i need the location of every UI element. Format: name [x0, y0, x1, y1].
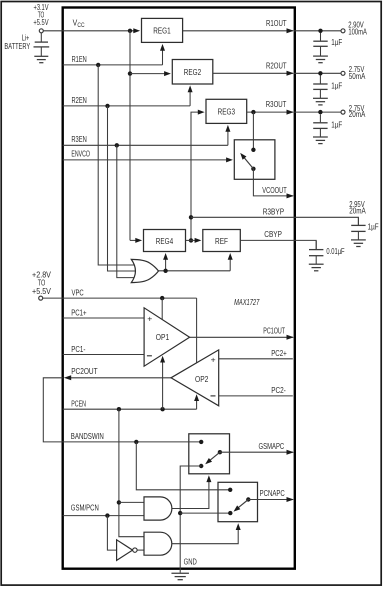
svg-text:BANDSWIN: BANDSWIN	[71, 432, 104, 441]
arrow R2EN into REG2 bottom	[188, 85, 193, 92]
ground GND pin	[171, 573, 189, 579]
svg-text:MAX1727: MAX1727	[234, 298, 260, 307]
pin label R2EN	[72, 96, 87, 105]
arrow R1EN into REG1 bottom	[160, 44, 165, 51]
OR gate G1	[131, 259, 158, 282]
value label 1uF C2	[331, 82, 342, 91]
svg-text:OP1: OP1	[156, 333, 170, 342]
svg-text:PC2OUT: PC2OUT	[71, 367, 97, 376]
svg-text:REG3: REG3	[218, 108, 236, 117]
pin label PC2OUT	[71, 367, 97, 376]
node R2OUT terminal	[341, 71, 345, 75]
wire R1EN	[63, 47, 163, 65]
arrow R3OUT at border	[287, 110, 294, 115]
IC U1 MAX1727 body outline	[63, 8, 295, 569]
pin label R3EN	[71, 135, 86, 144]
svg-text:PC1-: PC1-	[71, 345, 85, 354]
pin label R3BYP	[263, 208, 285, 217]
arrow into REG4	[135, 238, 142, 243]
svg-text:GSM/PCN: GSM/PCN	[71, 504, 99, 513]
svg-text:+5.5V: +5.5V	[33, 18, 49, 27]
wire R2OUT external	[294, 72, 341, 74]
wire GSMAPC output	[220, 451, 293, 453]
svg-text:VCOOUT: VCOOUT	[262, 186, 286, 195]
regulator REG3	[206, 99, 247, 123]
wire OR output to REG4 and REF	[158, 256, 230, 271]
op-amp OP2	[171, 350, 219, 406]
wire AND2 output to PCNAPC switch	[172, 526, 239, 544]
arrow ENVCO into switch	[226, 157, 233, 162]
wire REG4 output to REF	[186, 239, 198, 241]
label 2.75V 50mA	[349, 65, 366, 81]
svg-text:PC2-: PC2-	[271, 386, 286, 395]
svg-text:R2OUT: R2OUT	[266, 61, 287, 70]
svg-text:0.01µF: 0.01µF	[326, 247, 344, 256]
arrow GSMAPC at border	[287, 450, 294, 455]
junction GSM/PCN inverter	[105, 513, 109, 517]
wire VCC vertical rail	[129, 31, 131, 241]
pin label ENVCO	[71, 150, 90, 159]
AND gate G2	[144, 497, 172, 520]
svg-text:20mA: 20mA	[349, 110, 366, 119]
junction BANDSWIN	[134, 440, 138, 444]
junction R2EN to OR	[105, 104, 109, 108]
wire GND rail to PCNAPC contact	[180, 512, 230, 514]
node R1OUT terminal	[341, 29, 345, 33]
wire REG1 output R1OUT	[183, 30, 293, 32]
label +3.1V TO +5.5V	[33, 3, 49, 27]
arrow R1OUT at border	[287, 28, 294, 33]
arrow VCOOUT at border	[287, 193, 294, 198]
junction R1EN to OR	[96, 63, 100, 67]
wire VCOOUT	[253, 169, 292, 196]
svg-text:R3EN: R3EN	[71, 135, 86, 144]
pin label GND	[184, 557, 197, 566]
svg-text:CBYP: CBYP	[264, 230, 282, 239]
arrow into OP1 bottom	[160, 356, 165, 363]
svg-text:VPC: VPC	[72, 288, 84, 297]
svg-text:1µF: 1µF	[331, 38, 342, 47]
wire VPC to OP1 top	[161, 298, 163, 320]
wire PC1+	[63, 317, 144, 319]
svg-text:R3BYP: R3BYP	[263, 208, 285, 217]
svg-text:PCEN: PCEN	[71, 400, 86, 409]
pin label R1EN	[72, 55, 87, 64]
value label 1uF C4	[368, 223, 379, 232]
arrow into REG1	[133, 28, 140, 33]
junction PCEN AND1	[117, 500, 121, 504]
switch lever VCO	[240, 153, 253, 169]
AND gate G3	[144, 532, 172, 555]
VCO output switch box	[234, 140, 275, 180]
wire GSM/PCN	[63, 515, 144, 517]
junction VPC OP1	[160, 296, 164, 300]
label 2.95V 20mA	[349, 200, 366, 216]
junction R3EN to OR	[115, 143, 119, 147]
wire VCC rail to REG4	[130, 239, 138, 241]
label MAX1727	[234, 298, 260, 307]
svg-text:REG4: REG4	[156, 237, 174, 246]
label +2.8V TO +5.5V	[32, 271, 51, 296]
arrow into REF left	[195, 238, 202, 243]
svg-text:PC1+: PC1+	[71, 309, 87, 318]
wire PC2OUT	[69, 377, 171, 379]
node R3OUT terminal	[341, 110, 345, 114]
wire switch to GND rail	[180, 466, 201, 573]
junction R3OUT cap	[318, 110, 322, 114]
wire VPC	[43, 297, 197, 299]
junction GND rail PCNAPC	[178, 511, 182, 515]
svg-text:REF: REF	[215, 237, 228, 246]
battery B1 Li+	[34, 33, 50, 56]
pin label VCOOUT	[262, 186, 286, 195]
wire REG2 output R2OUT	[213, 72, 293, 74]
switch lever GSMAPC	[205, 452, 220, 464]
label Li+ BATTERY	[4, 34, 30, 51]
label 2.90V 100mA	[348, 21, 367, 37]
wire REF rail to REG3 input	[191, 112, 201, 240]
pin label PC1OUT	[263, 327, 285, 336]
pin label PCNAPC	[260, 489, 285, 498]
switch contact PCNAPC common	[246, 497, 250, 501]
wire inverter to AND2	[137, 549, 144, 551]
pin label VCC	[73, 18, 86, 29]
wire CBYP	[240, 240, 316, 249]
wire PC1OUT	[190, 336, 293, 338]
wire R3OUT to switch contact	[252, 112, 254, 150]
switch contact GSMAPC bottom	[199, 464, 203, 468]
switch contact PCNAPC bottom	[228, 511, 232, 515]
value label 1uF C1	[331, 38, 342, 47]
wire PCEN to AND gates	[119, 409, 144, 537]
wire PC2+	[219, 358, 293, 360]
junction PCEN gates	[117, 407, 121, 411]
svg-text:CC: CC	[77, 23, 85, 29]
wire PC2-	[219, 395, 293, 397]
capacitor C4 1uF with ground	[351, 218, 366, 247]
switch lever PCNAPC	[234, 500, 249, 512]
wire PCNAPC output	[248, 499, 292, 501]
junction REF rail REG4 output	[189, 238, 193, 242]
svg-text:PC1OUT: PC1OUT	[263, 327, 285, 336]
wire R3OUT external	[294, 111, 341, 113]
regulator REG1	[142, 18, 183, 42]
wire VCC rail to REG2	[130, 73, 167, 75]
capacitor C5 0.01uF with ground	[309, 241, 324, 271]
switch contact VCO bottom	[251, 167, 255, 171]
PCNAPC switch box	[218, 482, 258, 521]
pin label BANDSWIN	[71, 432, 104, 441]
wire PCEN to OP1 bottom	[162, 358, 164, 409]
svg-text:100mA: 100mA	[348, 28, 367, 37]
arrow into REF bottom	[228, 253, 233, 260]
svg-text:R3OUT: R3OUT	[266, 100, 287, 109]
svg-text:OP2: OP2	[195, 375, 209, 384]
wire R1OUT external	[294, 30, 341, 32]
pin label PC1-	[71, 345, 85, 354]
arrow into REG4 bottom	[163, 253, 168, 260]
svg-text:PC2+: PC2+	[271, 349, 287, 358]
arrow into REG3 left	[198, 110, 205, 115]
wire battery to VCC pin	[43, 30, 62, 32]
pin label PC1+	[71, 309, 87, 318]
arrow into PCNAPC switch bottom	[236, 523, 241, 530]
wire VCC pin to REG1	[63, 30, 136, 32]
svg-text:GSMAPC: GSMAPC	[259, 442, 285, 451]
switch contact GSMAPC top	[199, 440, 203, 444]
junction VCC-REG1	[128, 29, 132, 33]
arrow PCNAPC at border	[287, 497, 294, 502]
value label 1uF C3	[331, 121, 342, 130]
svg-text:PCNAPC: PCNAPC	[260, 489, 285, 498]
arrow into GSMAPC switch bottom	[206, 475, 211, 482]
regulator REG2	[172, 60, 213, 85]
wire PCEN to AND1 input	[119, 501, 144, 503]
wire R3EN	[63, 128, 228, 145]
wire PC1-	[63, 354, 144, 356]
wire BANDSWIN to PCNAPC switch	[136, 442, 230, 490]
arrow PC1OUT at border	[287, 335, 294, 340]
switch contact PCNAPC top	[228, 488, 232, 492]
wire BANDSWIN	[63, 441, 202, 443]
arrow R3EN into REG3 bottom	[225, 125, 230, 132]
op-amp OP1	[144, 308, 190, 366]
pin label CBYP	[264, 230, 282, 239]
wire R1EN to OR input	[98, 65, 136, 265]
label 2.75V 20mA	[349, 104, 366, 119]
junction R3OUT to switch	[251, 110, 255, 114]
wire R2EN to OR input	[108, 106, 137, 271]
arrow into OP2 bottom	[194, 394, 199, 401]
pin label R3OUT	[266, 100, 287, 109]
svg-text:50mA: 50mA	[349, 72, 366, 81]
wire PC2OUT external loop	[43, 378, 62, 442]
svg-text:R1EN: R1EN	[72, 55, 87, 64]
arrow into REG2	[164, 71, 171, 76]
svg-text:20mA: 20mA	[349, 207, 366, 216]
svg-text:REG1: REG1	[153, 27, 171, 36]
svg-text:GND: GND	[184, 557, 197, 566]
wire ENVCO	[63, 159, 230, 161]
regulator REG4	[144, 230, 186, 252]
wire R2EN	[63, 91, 190, 106]
reference REF	[203, 230, 241, 252]
junction REF rail R3BYP	[189, 215, 193, 219]
svg-text:ENVCO: ENVCO	[71, 150, 90, 159]
svg-text:1µF: 1µF	[331, 82, 342, 91]
pin label VPC	[72, 288, 84, 297]
svg-text:R1OUT: R1OUT	[266, 19, 287, 28]
node VCC supply terminal	[39, 29, 43, 33]
svg-text:REG2: REG2	[184, 68, 202, 77]
capacitor C1 1uF with ground	[313, 33, 328, 63]
switch contact VCO top	[251, 148, 255, 152]
pin label PC2+	[271, 349, 287, 358]
junction VCC-REG2	[128, 71, 132, 75]
svg-text:1µF: 1µF	[331, 121, 342, 130]
switch contact GSMAPC common	[218, 450, 222, 454]
arrow R2OUT at border	[287, 71, 294, 76]
arrow PC2OUT at border	[64, 375, 71, 380]
wire GSM/PCN to inverter	[107, 516, 116, 551]
junction PCEN OP1	[160, 407, 164, 411]
node VPC terminal	[39, 296, 43, 300]
wire R3BYP	[191, 217, 358, 225]
pin label PCEN	[71, 400, 86, 409]
junction R1OUT cap	[318, 29, 322, 33]
junction R2OUT cap	[318, 71, 322, 75]
wire VPC to OP2 top	[196, 298, 198, 363]
wire PCEN	[63, 408, 197, 410]
wire AND1 output to GSMAPC switch	[172, 478, 209, 509]
wire R3EN to OR input	[117, 145, 136, 277]
pin label GSM/PCN	[71, 504, 99, 513]
svg-text:BATTERY: BATTERY	[4, 42, 30, 51]
pin label GSMAPC	[259, 442, 285, 451]
capacitor C3 1uF with ground	[313, 114, 328, 143]
pin label R2OUT	[266, 61, 287, 70]
svg-text:1µF: 1µF	[368, 223, 379, 232]
ground battery	[34, 56, 48, 62]
svg-text:+: +	[211, 355, 216, 364]
wire REG3 output R3OUT	[247, 111, 293, 113]
pin label R1OUT	[266, 19, 287, 28]
GSMAPC switch box	[189, 434, 230, 474]
wire PCEN to OP2 bottom	[196, 397, 198, 410]
capacitor C2 1uF with ground	[313, 76, 328, 105]
inverter G4	[117, 540, 137, 561]
svg-text:+5.5V: +5.5V	[32, 287, 51, 296]
pin label PC2-	[271, 386, 286, 395]
junction OR output	[163, 269, 167, 273]
value label 0.01uF C5	[326, 247, 344, 256]
svg-text:+: +	[147, 315, 152, 324]
svg-text:R2EN: R2EN	[72, 96, 87, 105]
